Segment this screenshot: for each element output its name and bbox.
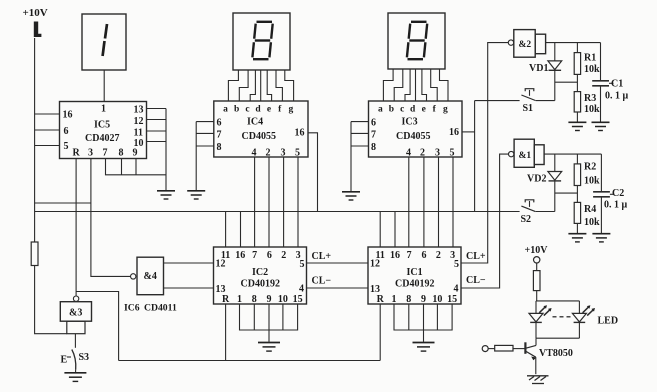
wire base bbox=[513, 348, 525, 350]
svg-text:IC1: IC1 bbox=[407, 267, 423, 278]
gate U4 NAND &4 bbox=[131, 257, 164, 295]
svg-text:&2: &2 bbox=[519, 40, 532, 50]
wire IC1 pin4 CL- to gate1 bbox=[461, 154, 509, 288]
svg-text:16: 16 bbox=[63, 110, 73, 121]
wire gate4 out to IC2 pin12 bbox=[164, 262, 214, 264]
wire rail lower bbox=[35, 266, 67, 334]
wire IC3 pin8 bbox=[351, 145, 369, 147]
wire IC1 pin8 stub bbox=[408, 304, 410, 330]
wire IC4 pin5 to IC2 pin3 bbox=[297, 157, 299, 247]
wire IC5 pin6 bbox=[35, 129, 60, 131]
LED D1 bbox=[529, 301, 552, 338]
wire DS1 to IC5 pin1 bbox=[103, 70, 105, 102]
wire IC5 pin13 bbox=[147, 108, 167, 110]
svg-text:e: e bbox=[267, 104, 271, 114]
wire bus +10V horizontal bbox=[35, 211, 520, 213]
wire IC1 pin11 to bus bbox=[379, 212, 381, 248]
svg-text:9: 9 bbox=[267, 294, 272, 305]
svg-text:6: 6 bbox=[64, 126, 69, 137]
svg-text:CL+: CL+ bbox=[312, 251, 332, 262]
svg-text:a: a bbox=[223, 104, 228, 114]
wire gate4 out to IC2 pin13 bbox=[164, 287, 214, 289]
wire rail stub y203 bbox=[35, 202, 91, 204]
svg-text:4: 4 bbox=[299, 284, 304, 295]
svg-text:CL−: CL− bbox=[312, 276, 332, 287]
svg-text:VT8050: VT8050 bbox=[539, 348, 573, 359]
svg-text:6: 6 bbox=[267, 250, 272, 261]
LED D2 bbox=[572, 305, 595, 338]
wire IC4 gnd stem bbox=[195, 122, 197, 190]
svg-text:1: 1 bbox=[237, 294, 242, 305]
svg-text:CD4055: CD4055 bbox=[242, 131, 276, 142]
svg-text:R: R bbox=[73, 148, 81, 159]
wire DS2 seg g bbox=[285, 70, 294, 101]
wire IC4 pin7 bbox=[196, 132, 214, 134]
svg-text:15: 15 bbox=[447, 294, 457, 305]
svg-text:1: 1 bbox=[392, 294, 397, 305]
svg-text:7: 7 bbox=[103, 148, 108, 159]
wire LED dashes bbox=[553, 316, 571, 318]
ground G-S3 bbox=[64, 373, 86, 382]
wire base input bbox=[488, 348, 495, 350]
svg-text:7: 7 bbox=[407, 250, 412, 261]
svg-text:f: f bbox=[278, 104, 282, 114]
wire IC5 right pins down bbox=[165, 109, 167, 191]
resistor R2 bbox=[574, 154, 600, 202]
diode VD2 bbox=[527, 154, 562, 211]
wire gate2 output rail bbox=[546, 42, 601, 44]
svg-text:S2: S2 bbox=[521, 214, 532, 225]
svg-text:C2: C2 bbox=[612, 188, 624, 199]
svg-text:&4: &4 bbox=[144, 271, 157, 282]
wire IC3 pin2 to IC1 pin6 bbox=[423, 157, 425, 247]
ground G2 bbox=[187, 191, 205, 199]
svg-text:IC4: IC4 bbox=[247, 117, 263, 128]
svg-text:0. 1 μ: 0. 1 μ bbox=[604, 200, 628, 211]
wire IC3 pin6 bbox=[351, 121, 369, 123]
svg-text:15: 15 bbox=[293, 294, 303, 305]
svg-text:a: a bbox=[378, 104, 383, 114]
wire IC4 pin16 to bus bbox=[308, 133, 318, 212]
svg-text:E: E bbox=[61, 355, 68, 366]
svg-text:CD4055: CD4055 bbox=[396, 131, 430, 142]
ground G-emitter bbox=[527, 376, 549, 384]
wire reset bottom run bbox=[119, 360, 381, 362]
svg-text:8: 8 bbox=[371, 142, 376, 153]
wire DS3 seg c bbox=[405, 69, 410, 101]
wire IC2 pin4 to IC1 pin13 bbox=[307, 287, 369, 289]
switch S1 bbox=[475, 89, 555, 114]
wire DS3 seg d bbox=[415, 69, 417, 101]
terminal base input bbox=[482, 346, 488, 352]
resistor R3 bbox=[574, 92, 600, 122]
transistor VT8050 bbox=[525, 342, 573, 374]
op IC3 CD4055 bbox=[369, 101, 463, 159]
wire DS3 seg f bbox=[431, 69, 438, 101]
svg-text:8: 8 bbox=[217, 142, 222, 153]
svg-text:VD1: VD1 bbox=[529, 63, 548, 74]
wire IC3 pin4 to IC1 pin7 bbox=[408, 157, 410, 247]
svg-text:6: 6 bbox=[422, 250, 427, 261]
svg-text:VD2: VD2 bbox=[527, 173, 546, 184]
ground G5 bbox=[413, 343, 435, 352]
svg-text:11: 11 bbox=[134, 128, 143, 139]
display DS1 bbox=[82, 14, 126, 70]
svg-text:g: g bbox=[443, 104, 448, 114]
svg-text:2: 2 bbox=[266, 148, 271, 159]
wire VD1 to R junction bbox=[555, 81, 578, 83]
svg-text:5: 5 bbox=[300, 259, 305, 270]
wire IC4 pin6 bbox=[196, 121, 214, 123]
wire IC5 pin12 bbox=[147, 119, 167, 121]
wire DS2 seg a bbox=[228, 70, 238, 101]
svg-text:5: 5 bbox=[64, 141, 69, 152]
svg-text:2: 2 bbox=[436, 250, 441, 261]
ground G9 bbox=[592, 234, 610, 242]
digit 8 DS3 bbox=[407, 22, 427, 59]
svg-text:d: d bbox=[255, 104, 261, 114]
wire LED top rail bbox=[536, 300, 579, 302]
wire IC3 pin5 to IC1 pin3 bbox=[452, 157, 454, 247]
svg-text:16: 16 bbox=[390, 250, 400, 261]
wire IC5 pin8 bbox=[121, 159, 123, 175]
wire VD2 to R junction bbox=[555, 192, 578, 194]
svg-text:b: b bbox=[389, 104, 394, 114]
wire IC4 pin8 bbox=[196, 145, 214, 147]
svg-text:9: 9 bbox=[421, 294, 426, 305]
wire IC1 pin5 CL+ to gate2 bbox=[461, 43, 508, 263]
wire IC3 pin16 right bbox=[462, 131, 475, 133]
wire DS3 seg b bbox=[394, 69, 403, 101]
svg-text:R3: R3 bbox=[584, 93, 596, 104]
wire IC2 gnd stem bbox=[268, 330, 270, 342]
wire DS2 seg c bbox=[250, 70, 255, 101]
svg-text:10k: 10k bbox=[584, 217, 600, 228]
svg-text:R: R bbox=[222, 294, 230, 305]
svg-text:R2: R2 bbox=[584, 162, 596, 173]
svg-text:5: 5 bbox=[454, 259, 459, 270]
svg-text:5: 5 bbox=[295, 148, 300, 159]
wire DS3 seg g bbox=[440, 69, 449, 101]
svg-text:S1: S1 bbox=[523, 103, 534, 114]
wire collector bbox=[535, 338, 537, 345]
svg-text:IC5: IC5 bbox=[94, 120, 110, 131]
resistor Rled bbox=[533, 271, 540, 291]
svg-text:b: b bbox=[234, 104, 239, 114]
display DS3 bbox=[388, 13, 445, 69]
gate U1 NAND &1 bbox=[509, 139, 545, 167]
svg-text:c: c bbox=[400, 104, 404, 114]
wire IC2 pins1-15 bracket bbox=[240, 304, 298, 330]
wire DS2 seg e bbox=[267, 70, 271, 101]
svg-text:e: e bbox=[422, 104, 426, 114]
svg-text:2: 2 bbox=[420, 148, 425, 159]
svg-text:3: 3 bbox=[281, 148, 286, 159]
ground G4 bbox=[258, 343, 280, 352]
wire IC2 pinR down bbox=[225, 304, 227, 361]
wire DS2 seg b bbox=[239, 70, 248, 101]
wire IC1 pin10 stub bbox=[436, 304, 438, 330]
diode VD1 bbox=[529, 43, 562, 101]
svg-text:16: 16 bbox=[235, 250, 245, 261]
wire DS3 seg e bbox=[422, 69, 427, 101]
wire gate3 node branch bbox=[76, 292, 119, 361]
wire IC2 pin9 stub bbox=[268, 304, 270, 330]
svg-text:8: 8 bbox=[406, 294, 411, 305]
wire +10V rail bbox=[34, 38, 36, 242]
svg-text:1: 1 bbox=[101, 104, 106, 115]
wire IC4 pin3 to IC2 pin2 bbox=[283, 157, 285, 247]
wire IC2 pin5 to IC1 pin12 bbox=[307, 262, 369, 264]
svg-text:c: c bbox=[245, 104, 249, 114]
wire IC4 pin4 to IC2 pin7 bbox=[254, 157, 256, 247]
wire IC1 pins1-15 bracket bbox=[394, 304, 452, 330]
svg-text:5: 5 bbox=[450, 148, 455, 159]
wire DS2 seg f bbox=[276, 70, 282, 101]
svg-text:8: 8 bbox=[252, 294, 257, 305]
svg-text:CD4027: CD4027 bbox=[85, 133, 119, 144]
svg-text:&3: &3 bbox=[69, 308, 82, 319]
wire IC5 pinR down bbox=[75, 159, 77, 296]
op IC2 CD40192 bbox=[214, 247, 307, 305]
power +10V bottom-right bbox=[525, 245, 549, 263]
svg-text:IC3: IC3 bbox=[402, 117, 418, 128]
wire IC3 pin3 to IC1 pin2 bbox=[438, 157, 440, 247]
wire IC3 gnd stem bbox=[350, 122, 352, 191]
svg-text:4: 4 bbox=[406, 148, 411, 159]
wire IC2 pin10 stub bbox=[282, 304, 284, 330]
svg-text:f: f bbox=[433, 104, 437, 114]
gate U2 NAND &2 bbox=[508, 30, 545, 58]
wire LED bottom rail bbox=[536, 337, 579, 339]
svg-text:+10V: +10V bbox=[23, 7, 48, 19]
wire IC1 pin9 stub bbox=[423, 304, 425, 330]
svg-text:R4: R4 bbox=[584, 204, 596, 215]
wire IC5 pins 7 8 9 bracket bbox=[106, 159, 167, 175]
svg-text:13: 13 bbox=[134, 105, 144, 116]
wire IC5 pin10 bbox=[147, 141, 167, 143]
svg-text:4: 4 bbox=[454, 284, 459, 295]
svg-text:S3: S3 bbox=[79, 352, 90, 363]
svg-text:16: 16 bbox=[449, 127, 459, 138]
op IC1 CD40192 bbox=[368, 247, 461, 305]
svg-text:&1: &1 bbox=[519, 151, 532, 161]
wire DS2 seg d bbox=[260, 70, 262, 101]
svg-text:10k: 10k bbox=[584, 176, 600, 187]
svg-text:2: 2 bbox=[281, 250, 286, 261]
wire IC5 pin5 bbox=[35, 145, 60, 147]
svg-text:6: 6 bbox=[371, 118, 376, 129]
wire IC5 pin16 bbox=[35, 113, 60, 115]
svg-text:R: R bbox=[377, 294, 385, 305]
resistor Rbase bbox=[495, 345, 513, 351]
switch S2 bbox=[521, 200, 555, 225]
svg-text:C1: C1 bbox=[611, 79, 623, 90]
op IC5 CD4027 bbox=[60, 102, 147, 159]
svg-text:CD40192: CD40192 bbox=[241, 279, 280, 290]
wire IC5 pin3 down to gate4 bbox=[91, 159, 131, 277]
ground G7 bbox=[592, 122, 610, 130]
wire IC2 pin8 stub bbox=[253, 304, 255, 330]
svg-text:7: 7 bbox=[252, 250, 257, 261]
wire IC4 pin2 to IC2 pin6 bbox=[268, 157, 270, 247]
svg-text:R1: R1 bbox=[584, 53, 596, 64]
svg-text:CL+: CL+ bbox=[466, 251, 486, 262]
digit 8 DS2 bbox=[252, 22, 272, 59]
svg-text:16: 16 bbox=[295, 128, 305, 139]
svg-text:+10V: +10V bbox=[525, 245, 549, 256]
wire DS3 seg a bbox=[383, 69, 393, 101]
svg-text:0. 1 μ: 0. 1 μ bbox=[605, 91, 629, 102]
wire IC1 pin16 to bus bbox=[394, 212, 396, 248]
power +10V top-left bbox=[23, 7, 48, 37]
svg-text:6: 6 bbox=[217, 118, 222, 129]
wire IC2 pin16 to bus bbox=[240, 212, 242, 248]
wire IC2 pin11 to bus bbox=[225, 212, 227, 248]
svg-text:8: 8 bbox=[119, 148, 124, 159]
wire gate1 output rail bbox=[544, 153, 601, 155]
svg-text:IC6 CD4011: IC6 CD4011 bbox=[124, 303, 177, 314]
svg-text:12: 12 bbox=[134, 116, 144, 127]
svg-text:7: 7 bbox=[371, 130, 376, 141]
svg-text:7: 7 bbox=[217, 130, 222, 141]
svg-text:4: 4 bbox=[252, 148, 257, 159]
resistor Rleft bbox=[31, 242, 38, 266]
ground G8 bbox=[568, 234, 586, 242]
wire terminal to resistor bbox=[536, 263, 538, 271]
svg-text:10: 10 bbox=[432, 294, 442, 305]
svg-text:LED: LED bbox=[598, 316, 619, 327]
switch S3 bbox=[61, 334, 90, 372]
svg-text:10k: 10k bbox=[584, 64, 600, 75]
svg-text:12: 12 bbox=[216, 259, 226, 270]
wire S1 to bus vertical bbox=[474, 101, 476, 212]
resistor R4 bbox=[574, 202, 600, 233]
display DS2 bbox=[233, 13, 290, 70]
wire IC5 pin11 bbox=[147, 130, 167, 132]
capacitor C1 bbox=[592, 43, 628, 122]
wire resistor to LED rail bbox=[536, 291, 538, 301]
svg-text:3: 3 bbox=[88, 148, 93, 159]
ground G6 bbox=[568, 122, 586, 130]
svg-text:10k: 10k bbox=[584, 104, 600, 115]
resistor R1 bbox=[574, 43, 600, 92]
digit 1 bbox=[103, 24, 107, 56]
svg-text:CD40192: CD40192 bbox=[395, 279, 434, 290]
svg-text:9: 9 bbox=[133, 148, 138, 159]
svg-text:12: 12 bbox=[370, 259, 380, 270]
svg-text:CL−: CL− bbox=[466, 275, 486, 286]
svg-text:d: d bbox=[410, 104, 416, 114]
svg-text:10: 10 bbox=[278, 294, 288, 305]
svg-text:IC2: IC2 bbox=[252, 267, 268, 278]
gate U3 NAND &3 bbox=[60, 296, 91, 334]
capacitor C2 bbox=[593, 154, 627, 233]
svg-text:3: 3 bbox=[435, 148, 440, 159]
op IC4 CD4055 bbox=[214, 101, 308, 159]
svg-text:g: g bbox=[289, 104, 294, 114]
ground G1 bbox=[157, 191, 175, 199]
wire IC1 gnd stem bbox=[423, 330, 425, 342]
wire IC5 pin9 bbox=[135, 159, 137, 175]
wire IC1 pinR down bbox=[379, 304, 381, 361]
wire LED right branch bbox=[578, 301, 580, 314]
wire IC3 pin7 bbox=[351, 132, 369, 134]
ground G3 bbox=[342, 192, 360, 200]
